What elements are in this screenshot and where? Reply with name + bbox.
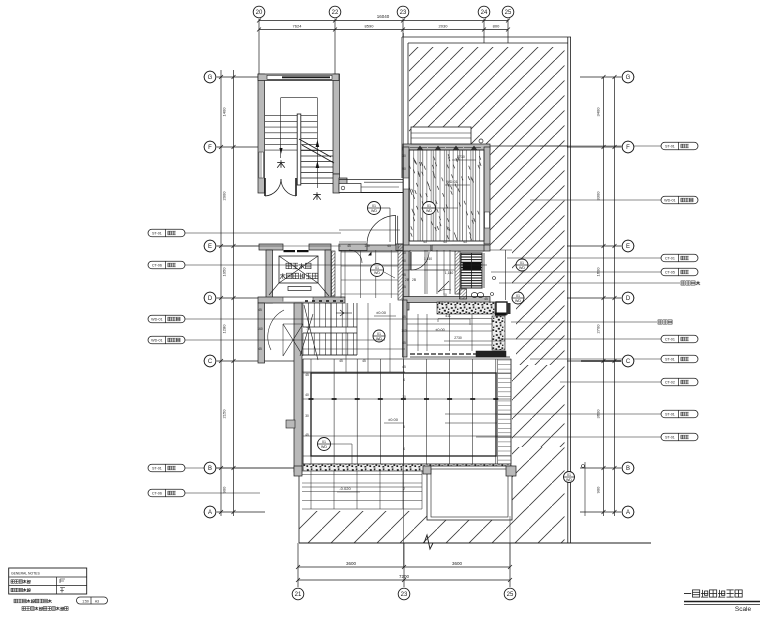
svg-text:160: 160 <box>257 327 263 331</box>
svg-text:CT-06: CT-06 <box>152 264 162 268</box>
svg-text:E: E <box>626 244 630 250</box>
svg-text:B: B <box>626 466 630 472</box>
svg-text:WD-01: WD-01 <box>151 318 162 322</box>
svg-text:GENERAL NOTES: GENERAL NOTES <box>11 572 40 576</box>
svg-text:WD-01: WD-01 <box>151 339 162 343</box>
svg-text:45: 45 <box>258 308 262 312</box>
svg-text:1280: 1280 <box>222 324 227 334</box>
svg-text:ST-01: ST-01 <box>665 413 675 417</box>
svg-text:2: 2 <box>403 487 405 491</box>
svg-text:2030: 2030 <box>439 24 449 29</box>
svg-text:2730: 2730 <box>454 336 462 340</box>
svg-text:2B: 2B <box>412 278 416 282</box>
svg-text:A: A <box>208 510 212 516</box>
svg-text:2000: 2000 <box>222 191 227 201</box>
svg-text:20: 20 <box>256 10 263 16</box>
svg-text:45: 45 <box>339 359 343 363</box>
svg-text:8590: 8590 <box>365 24 375 29</box>
svg-text:Scale: Scale <box>735 606 752 613</box>
svg-text:WD: WD <box>515 299 521 303</box>
svg-text:C: C <box>626 359 631 365</box>
svg-text:30: 30 <box>402 154 406 158</box>
svg-text:01: 01 <box>567 473 571 477</box>
svg-text:4: 4 <box>403 447 405 451</box>
svg-text:WD: WD <box>376 337 382 341</box>
svg-text:411: 411 <box>445 314 451 318</box>
svg-text:140: 140 <box>364 244 370 248</box>
svg-text:WD: WD <box>519 266 525 270</box>
svg-text:CT-06: CT-06 <box>152 492 162 496</box>
svg-text:ST-01: ST-01 <box>665 145 675 149</box>
svg-text:45: 45 <box>258 347 262 351</box>
svg-text:±0.00: ±0.00 <box>388 417 399 422</box>
svg-text:01: 01 <box>516 294 520 298</box>
svg-text:7200: 7200 <box>399 574 410 579</box>
svg-text:WD: WD <box>374 271 380 275</box>
svg-text:45: 45 <box>402 365 406 369</box>
svg-text:WD: WD <box>426 209 432 213</box>
svg-text:3600: 3600 <box>596 409 601 419</box>
svg-text:45: 45 <box>484 297 488 301</box>
svg-text:01: 01 <box>427 204 431 208</box>
svg-text:WD-01: WD-01 <box>664 199 675 203</box>
svg-text:16040: 16040 <box>377 14 390 19</box>
svg-text:ST-01: ST-01 <box>152 232 162 236</box>
svg-text:411: 411 <box>438 301 443 305</box>
svg-text:45: 45 <box>305 373 309 377</box>
svg-text:30: 30 <box>402 251 406 255</box>
svg-text:45: 45 <box>347 244 351 248</box>
svg-text:ST-01: ST-01 <box>665 436 675 440</box>
svg-text:24: 24 <box>481 10 488 16</box>
svg-text:45: 45 <box>463 240 467 244</box>
svg-text:90: 90 <box>402 259 406 263</box>
svg-text:23: 23 <box>400 10 407 16</box>
svg-text:30: 30 <box>305 414 309 418</box>
svg-text:160: 160 <box>401 329 407 333</box>
svg-text:01: 01 <box>520 261 524 265</box>
svg-text:25: 25 <box>507 592 514 598</box>
svg-text:45: 45 <box>305 433 309 437</box>
svg-text:45: 45 <box>423 240 427 244</box>
svg-text:D: D <box>626 296 631 302</box>
svg-text:900: 900 <box>222 486 227 493</box>
svg-text:CT-05: CT-05 <box>665 271 675 275</box>
svg-text:2730: 2730 <box>457 155 465 159</box>
svg-text:21: 21 <box>295 592 302 598</box>
svg-text:4: 4 <box>403 378 405 382</box>
svg-text:1,140: 1,140 <box>424 257 432 261</box>
svg-text:B: B <box>208 466 212 472</box>
svg-text:CT-01: CT-01 <box>665 257 675 261</box>
svg-text:3400: 3400 <box>596 107 601 117</box>
svg-text:-0.020: -0.020 <box>339 486 351 491</box>
svg-text:±0.00: ±0.00 <box>376 310 387 315</box>
svg-text:55: 55 <box>402 273 406 277</box>
svg-text:WD: WD <box>566 478 572 482</box>
svg-text:CT-02: CT-02 <box>665 381 675 385</box>
svg-text:±0.00: ±0.00 <box>435 328 444 332</box>
svg-text:45: 45 <box>402 315 406 319</box>
svg-text:900: 900 <box>596 486 601 493</box>
svg-text:1:50: 1:50 <box>82 599 89 603</box>
svg-text:40: 40 <box>305 393 309 397</box>
svg-text:25: 25 <box>505 10 512 16</box>
svg-text:E: E <box>208 244 212 250</box>
svg-text:G: G <box>208 75 213 81</box>
svg-text:2150: 2150 <box>222 409 227 419</box>
svg-text:WD: WD <box>371 209 377 213</box>
svg-text:CT-01: CT-01 <box>665 338 675 342</box>
svg-text:C: C <box>208 359 213 365</box>
svg-text:2700: 2700 <box>596 324 601 334</box>
svg-text:01: 01 <box>377 332 381 336</box>
svg-text:1,140: 1,140 <box>445 271 454 275</box>
svg-text:45: 45 <box>362 359 366 363</box>
svg-text:F: F <box>626 145 630 151</box>
svg-text:45: 45 <box>402 285 406 289</box>
svg-text:WD: WD <box>321 445 327 449</box>
svg-text:1600: 1600 <box>596 267 601 277</box>
svg-text:ST-01: ST-01 <box>665 358 675 362</box>
svg-text:A3: A3 <box>95 599 99 603</box>
svg-text:800: 800 <box>493 24 500 29</box>
svg-text:45: 45 <box>402 341 406 345</box>
svg-text:90: 90 <box>402 167 406 171</box>
svg-text:3300: 3300 <box>596 191 601 201</box>
svg-text:3600: 3600 <box>452 561 463 566</box>
svg-text:45: 45 <box>443 240 447 244</box>
svg-text:G: G <box>626 75 631 81</box>
svg-text:01: 01 <box>372 204 376 208</box>
svg-text:01: 01 <box>322 440 326 444</box>
svg-text:10: 10 <box>402 395 406 399</box>
svg-text:ST-01: ST-01 <box>152 467 162 471</box>
svg-text:70: 70 <box>306 327 310 331</box>
svg-text:22: 22 <box>332 10 339 16</box>
svg-text:7624: 7624 <box>293 24 303 29</box>
svg-text:45: 45 <box>387 244 391 248</box>
svg-text:D: D <box>208 296 213 302</box>
svg-text:A: A <box>626 510 630 516</box>
svg-text:3600: 3600 <box>346 561 357 566</box>
svg-text:5: 5 <box>403 425 405 429</box>
svg-text:1400: 1400 <box>222 107 227 117</box>
svg-text:1050: 1050 <box>222 267 227 277</box>
svg-text:01: 01 <box>375 266 379 270</box>
svg-text:2B: 2B <box>405 278 409 282</box>
svg-text:23: 23 <box>401 592 408 598</box>
svg-text:WD-01: WD-01 <box>446 180 458 184</box>
svg-text:F: F <box>208 145 212 151</box>
